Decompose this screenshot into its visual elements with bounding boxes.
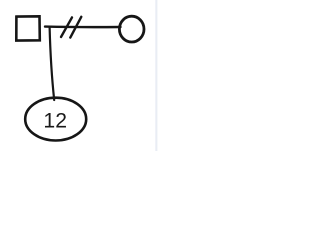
page edge faint line	[155, 0, 157, 151]
square: father	[16, 16, 40, 40]
divorce slash 1	[61, 17, 72, 37]
circle: mother	[119, 16, 144, 42]
divorce slash 2	[70, 17, 81, 38]
wire: child drop line	[50, 27, 55, 100]
svg-text:12: 12	[43, 110, 67, 133]
wire: union line	[45, 25, 121, 28]
ellipse: child	[25, 98, 86, 141]
